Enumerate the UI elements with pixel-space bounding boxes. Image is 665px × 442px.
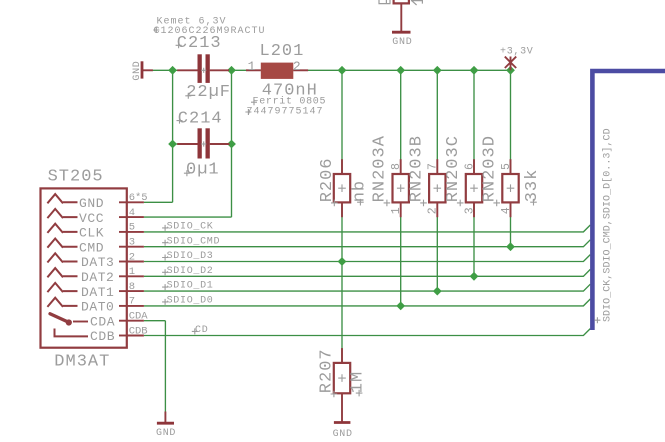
junction RN203A/SDIO_D0 bbox=[396, 302, 405, 311]
resistor network RN203B top pin bbox=[436, 159, 438, 174]
capacitor C213 origin cross bbox=[201, 68, 206, 73]
bus SDIO_CK,SDIO_CMD,SDIO_D[0..3],CD bbox=[592, 71, 665, 330]
svg-text:5: 5 bbox=[129, 222, 135, 234]
svg-text:1: 1 bbox=[390, 207, 403, 214]
junction on rail x=474.0 bbox=[470, 66, 479, 75]
resistor (off-sheet) gray text remnant right bbox=[411, 1, 423, 5]
svg-text:DAT0: DAT0 bbox=[81, 300, 114, 315]
pin DAT2 stub bbox=[127, 275, 144, 277]
capacitor C213 right pin bbox=[210, 69, 229, 71]
net label SDIO_D2 cross bbox=[162, 269, 168, 275]
capacitor C214 name cross bbox=[177, 118, 183, 124]
pin VCC stub bbox=[127, 216, 144, 218]
resistor network RN203D bottom pin bbox=[510, 202, 512, 217]
wire VCC pin row bbox=[144, 216, 232, 218]
pin DAT0 inner lead bbox=[119, 305, 127, 307]
svg-text:2: 2 bbox=[129, 251, 135, 263]
svg-text:7: 7 bbox=[129, 296, 135, 308]
ground GND top bar bbox=[392, 31, 411, 34]
wire RN203 RND top column bbox=[510, 70, 512, 174]
pin DAT2 contact chevron bbox=[47, 268, 77, 277]
pin VCC contact chevron bbox=[47, 209, 77, 218]
wire RN203 RNA top column bbox=[400, 70, 402, 174]
wire RN203 RNC top column bbox=[473, 70, 475, 174]
net label SDIO_CMD cross bbox=[162, 240, 168, 246]
wire RN203 RND bottom column bbox=[510, 202, 512, 246]
resistor network RN203D value cross bbox=[530, 199, 537, 206]
capacitor C213 right plate bbox=[206, 54, 210, 83]
connector ST205 box bbox=[41, 188, 127, 347]
pin CDB stub bbox=[127, 335, 144, 337]
pin DAT3 contact chevron bbox=[47, 253, 77, 262]
svg-text:CDA: CDA bbox=[90, 314, 115, 329]
resistor R207 origin cross bbox=[338, 374, 346, 382]
svg-text:CDB: CDB bbox=[90, 329, 115, 344]
inductor L201 attribute cross bbox=[251, 99, 257, 105]
svg-text:33k: 33k bbox=[523, 169, 542, 203]
svg-text:VCC: VCC bbox=[79, 211, 104, 226]
svg-text:RN203A: RN203A bbox=[371, 135, 390, 202]
pin CDB inner lead bbox=[119, 335, 127, 337]
svg-text:3: 3 bbox=[129, 237, 135, 249]
svg-text:GND: GND bbox=[156, 428, 176, 439]
ground GND bottom-left bar bbox=[157, 422, 174, 425]
wire C214 row right segment bbox=[210, 143, 232, 145]
net label SDIO_D3 cross bbox=[162, 255, 168, 261]
svg-text:SDIO_D2: SDIO_D2 bbox=[167, 266, 214, 277]
svg-text:1M: 1M bbox=[349, 371, 368, 393]
pin CDA contact lever bbox=[50, 314, 88, 326]
resistor R206 origin cross bbox=[338, 184, 346, 192]
wire CDA pin row bbox=[144, 320, 166, 322]
resistor network RN203C origin cross bbox=[470, 184, 478, 192]
pin DAT1 inner lead bbox=[119, 290, 127, 292]
resistor R207 body bbox=[334, 363, 350, 393]
junction on rail x=231.5 bbox=[227, 66, 236, 75]
resistor network RN203D body bbox=[502, 174, 518, 202]
resistor R206 body bbox=[334, 174, 350, 202]
pin CLK inner lead bbox=[119, 231, 127, 233]
pin DAT0 contact chevron bbox=[47, 298, 77, 307]
svg-text:GND: GND bbox=[333, 429, 353, 440]
svg-text:SDIO_CK: SDIO_CK bbox=[167, 222, 214, 233]
pin DAT1 stub bbox=[127, 290, 144, 292]
capacitor C214 value cross bbox=[184, 170, 190, 176]
resistor R206 bottom pin bbox=[341, 202, 343, 217]
net label SDIO_D1 cross bbox=[162, 284, 168, 290]
wire net SDIO_D0 row bbox=[144, 299, 590, 306]
capacitor C213 value cross bbox=[185, 93, 191, 99]
capacitor C214 right pin bbox=[210, 143, 230, 145]
resistor network RN203D name cross bbox=[493, 200, 500, 207]
wire rail GND-bar to C213 left plate bbox=[143, 69, 198, 71]
net label SDIO_D0 cross bbox=[162, 299, 168, 305]
inductor L201 pin2 bbox=[293, 69, 308, 71]
wire rail L201 pin2 to +3.3V node bbox=[293, 69, 510, 71]
wire net SDIO_CK row bbox=[144, 225, 590, 232]
inductor L201 pin1 bbox=[246, 69, 261, 71]
pin CDA inner lead bbox=[119, 320, 127, 322]
resistor network RN203C name cross bbox=[457, 200, 464, 207]
svg-text:CD: CD bbox=[195, 325, 208, 336]
wire net CD row (CDB pin) bbox=[144, 329, 590, 336]
ground GND left bar bbox=[141, 61, 144, 78]
svg-text:C213: C213 bbox=[177, 34, 222, 53]
pin DAT3 inner lead bbox=[119, 261, 127, 263]
svg-text:DAT2: DAT2 bbox=[81, 270, 114, 285]
supply +3,3V arrow bbox=[505, 57, 516, 71]
capacitor C213 left pin bbox=[177, 69, 197, 71]
wire R206 top column bbox=[341, 70, 343, 174]
junction C214 right bbox=[227, 140, 236, 149]
junction C214 left bbox=[168, 140, 177, 149]
svg-text:SDIO_D3: SDIO_D3 bbox=[167, 251, 214, 262]
svg-text:8: 8 bbox=[390, 163, 403, 170]
svg-text:CLK: CLK bbox=[79, 226, 104, 241]
wire RN203 RNB bottom column bbox=[436, 202, 438, 291]
wire net SDIO_D3 row bbox=[144, 255, 590, 262]
svg-text:C214: C214 bbox=[178, 110, 223, 129]
resistor network RN203D top pin bbox=[510, 159, 512, 174]
junction on rail x=400.7 bbox=[396, 66, 405, 75]
pin DAT0 stub bbox=[127, 305, 144, 307]
ground GND left stub bbox=[143, 69, 153, 71]
pin CDB contact bbox=[55, 329, 89, 337]
svg-text:SDIO_D0: SDIO_D0 bbox=[167, 296, 214, 307]
pin CMD stub bbox=[127, 246, 144, 248]
svg-text:4: 4 bbox=[129, 207, 135, 219]
svg-text:8: 8 bbox=[129, 281, 135, 293]
svg-text:CMD: CMD bbox=[79, 240, 104, 255]
svg-text:3: 3 bbox=[463, 207, 476, 214]
wire net SDIO_CMD row bbox=[144, 240, 590, 247]
pin CMD inner lead bbox=[119, 246, 127, 248]
wire VCC column x=231.5 rail to VCC pin row bbox=[231, 70, 233, 217]
resistor network RN203D origin cross bbox=[507, 184, 515, 192]
svg-text:DM3AT: DM3AT bbox=[54, 353, 110, 372]
capacitor C213 attribute cross bbox=[153, 27, 159, 33]
resistor R206 name cross bbox=[331, 200, 338, 207]
ground GND R207 bar bbox=[334, 421, 351, 424]
resistor network RN203B origin cross bbox=[434, 184, 442, 192]
resistor network RN203C top pin bbox=[473, 159, 475, 174]
svg-text:GND: GND bbox=[392, 37, 412, 48]
svg-text:+3,3V: +3,3V bbox=[500, 46, 534, 57]
capacitor C214 right plate bbox=[206, 128, 210, 158]
wire GND column x=172.6 rail to GND pin row bbox=[172, 70, 174, 202]
svg-text:1: 1 bbox=[129, 266, 135, 278]
svg-text:4: 4 bbox=[500, 207, 513, 214]
wire RN203 RNA bottom column bbox=[400, 202, 402, 306]
capacitor C214 left pin bbox=[177, 143, 197, 145]
inductor L201 attribute cross 2 bbox=[245, 109, 251, 115]
pin DAT2 inner lead bbox=[119, 275, 127, 277]
pin GND stub bbox=[127, 201, 144, 203]
svg-text:RN203D: RN203D bbox=[481, 135, 500, 202]
svg-text:SDIO_D1: SDIO_D1 bbox=[167, 281, 214, 292]
resistor R207 name cross bbox=[331, 391, 338, 398]
net label CD cross bbox=[192, 328, 198, 334]
junction on rail x=342.0 bbox=[338, 66, 347, 75]
svg-text:5: 5 bbox=[500, 163, 513, 170]
pin GND contact chevron bbox=[47, 194, 77, 203]
resistor R207 value cross bbox=[356, 390, 363, 397]
svg-text:74479775147: 74479775147 bbox=[247, 106, 324, 117]
svg-text:7: 7 bbox=[427, 163, 440, 170]
net label SDIO_CK cross bbox=[162, 225, 168, 231]
junction R206/SDIO_D3 bbox=[338, 257, 347, 266]
pin CLK contact chevron bbox=[47, 224, 77, 233]
wire R206 bottom to R207 top (SDIO_D3 tap) bbox=[341, 202, 343, 363]
bus label cross bbox=[594, 317, 600, 323]
svg-text:ST205: ST205 bbox=[48, 168, 104, 187]
svg-text:DAT1: DAT1 bbox=[81, 285, 114, 300]
svg-text:RN203B: RN203B bbox=[407, 135, 426, 202]
svg-text:SDIO_CK,SDIO_CMD,SDIO_D[0..3],: SDIO_CK,SDIO_CMD,SDIO_D[0..3],CD bbox=[602, 128, 614, 322]
pin VCC inner lead bbox=[119, 216, 127, 218]
resistor network RN203A body bbox=[393, 174, 409, 202]
svg-text:R206: R206 bbox=[318, 157, 337, 202]
svg-text:CDA: CDA bbox=[129, 311, 149, 323]
capacitor C214 origin cross bbox=[201, 141, 206, 146]
pin GND inner lead bbox=[119, 201, 127, 203]
resistor network RN203B name cross bbox=[420, 200, 427, 207]
svg-text:DAT3: DAT3 bbox=[81, 255, 114, 270]
resistor network RN203A top pin bbox=[400, 159, 402, 174]
pin DAT3 stub bbox=[127, 261, 144, 263]
svg-text:RN203C: RN203C bbox=[444, 135, 463, 202]
pin DAT1 contact chevron bbox=[47, 283, 77, 292]
resistor network RN203A name cross bbox=[384, 200, 391, 207]
wire net SDIO_D1 row bbox=[144, 284, 590, 291]
resistor R206 top pin bbox=[341, 159, 343, 174]
ground GND top stub bbox=[400, 3, 402, 32]
wire C214 row left segment bbox=[173, 143, 198, 145]
inductor L201 body bbox=[261, 63, 294, 79]
wire RN203 RNC bottom column bbox=[473, 202, 475, 276]
resistor network RN203B bottom pin bbox=[436, 202, 438, 217]
capacitor C213 name cross bbox=[176, 42, 182, 48]
junction on rail x=172.6 bbox=[168, 66, 177, 75]
svg-text:SDIO_CMD: SDIO_CMD bbox=[167, 236, 221, 247]
wire net SDIO_D2 row bbox=[144, 269, 590, 276]
resistor R207 bottom pin bbox=[341, 393, 343, 422]
pin CMD contact chevron bbox=[47, 239, 77, 248]
svg-text:GND: GND bbox=[132, 60, 143, 80]
junction on rail x=510.5 bbox=[506, 66, 515, 75]
resistor R206 value cross bbox=[357, 199, 364, 206]
resistor network RN203A bottom pin bbox=[400, 202, 402, 217]
svg-text:CDB: CDB bbox=[129, 325, 148, 337]
svg-text:6*5: 6*5 bbox=[129, 192, 148, 204]
svg-text:6: 6 bbox=[463, 163, 476, 170]
resistor network RN203C body bbox=[466, 174, 482, 202]
svg-text:22µF: 22µF bbox=[186, 83, 231, 102]
resistor network RN203A origin cross bbox=[397, 184, 405, 192]
capacitor C214 left plate bbox=[198, 128, 202, 158]
svg-text:GND: GND bbox=[79, 196, 104, 211]
wire GND pin row bbox=[144, 201, 173, 203]
svg-text:1: 1 bbox=[248, 59, 256, 74]
resistor (off-sheet, top edge) body bbox=[394, 0, 409, 3]
resistor network RN203B body bbox=[429, 174, 445, 202]
svg-text:2: 2 bbox=[427, 207, 440, 214]
pin CDA stub bbox=[127, 320, 144, 322]
junction RN203B/SDIO_D1 bbox=[433, 287, 442, 296]
junction RN203C/SDIO_D2 bbox=[470, 272, 479, 281]
capacitor C213 left plate bbox=[198, 54, 202, 83]
resistor network RN203C bottom pin bbox=[473, 202, 475, 217]
wire CDA column down to GND bbox=[164, 321, 166, 412]
wire rail C213 right plate to L201 pin1 bbox=[210, 69, 261, 71]
resistor R207 top pin bbox=[341, 348, 343, 363]
pin CLK stub bbox=[127, 231, 144, 233]
svg-text:2: 2 bbox=[293, 59, 301, 74]
wire RN203 RNB top column bbox=[436, 70, 438, 174]
junction on rail x=437.3 bbox=[433, 66, 442, 75]
ground GND bottom-left stub bbox=[164, 412, 166, 424]
svg-text:R207: R207 bbox=[318, 348, 337, 393]
junction RN203D/SDIO_CMD bbox=[506, 242, 515, 251]
svg-text:0µ1: 0µ1 bbox=[186, 161, 220, 180]
resistor (off-sheet) gray text remnant left bbox=[379, 0, 390, 4]
svg-text:L201: L201 bbox=[260, 42, 305, 61]
